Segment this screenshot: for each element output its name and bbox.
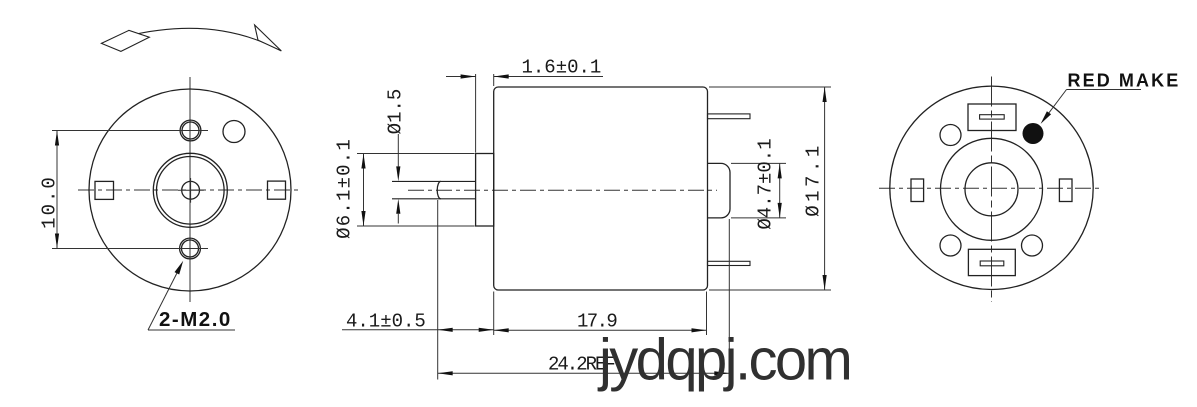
top mounting hole M2.0 [180,120,201,141]
dim 10.0 top extension line [52,130,208,132]
2-M2.0 leader arrow [148,261,183,330]
dim dia17.1 dimension line with arrows [823,87,827,290]
front shaft circle [182,181,200,199]
bushing rectangle [476,154,494,227]
bottom terminal pin [708,261,751,265]
dim 17.9 right extension line [706,292,708,336]
dim 10.0 bottom extension line [52,248,208,250]
rear bottom terminal slot [980,261,1004,266]
dim dia1.5 dimension line with arrows [396,134,400,224]
dim dia6.1 bottom extension line [357,225,475,227]
dim dia17.1 bottom extension line [709,289,831,291]
dim dia6.1 dimension line with arrows [361,154,365,227]
red mark filled dot [1023,123,1044,144]
dim 17.9 dimension line with arrows [494,328,707,332]
rear boss rounded [708,163,731,218]
shaft rounded tip [437,181,441,198]
rear bottom terminal housing [968,249,1015,275]
dim dia4.7 bottom extension line [731,217,786,219]
dim dia6.1 top extension line [357,153,475,155]
2-M2.0 leader underline [148,329,235,331]
svg-text:10.0: 10.0 [39,175,61,229]
svg-text:1.6±0.1: 1.6±0.1 [522,57,602,79]
dim 4.1 dimension line with arrows [342,328,494,332]
svg-text:2-M2.0: 2-M2.0 [159,308,232,331]
dim 1.6 right extension line [493,74,495,86]
rear vent hole bottom-right [1022,235,1043,256]
rear vent hole bottom-left [940,235,961,256]
front right flat tab square [268,181,286,199]
rear raised ring circle [941,138,1043,240]
rear top terminal housing [968,104,1016,131]
dim 4.1 body face extension line [493,292,495,336]
rear view vertical centerline [991,77,993,303]
RED MAKE leader arrow [1041,90,1067,124]
front bearing boss outer circle [153,153,227,227]
front left flat tab square [95,181,114,199]
front shaft crosshair [178,178,204,203]
shaft bottom line with extension [392,198,476,200]
dim 24.2REF right extension line [728,219,730,380]
rotation direction arc arrow [101,25,281,51]
svg-text:Ø6.1±0.1: Ø6.1±0.1 [334,138,356,239]
shaft top line with extension [392,180,476,182]
rear center bore circle [965,163,1018,216]
side view horizontal centerline [408,189,717,191]
dim dia17.1 top extension line [709,86,831,88]
svg-text:RED MAKE: RED MAKE [1068,71,1181,91]
dim 10.0 dimension line with arrows [55,131,59,249]
front pilot hole circle [223,121,245,143]
front bearing boss inner circle [157,157,225,225]
rear left flat tab [911,179,924,202]
svg-text:Ø4.7±0.1: Ø4.7±0.1 [755,138,777,229]
rear right flat tab [1059,179,1072,202]
dim 1.6 dimension line with arrows [446,74,603,78]
dim 1.6 left extension line [475,74,477,153]
rear view horizontal centerline [879,187,1103,189]
top terminal pin [708,114,751,119]
RED MAKE underline [1067,89,1142,91]
rear view motor outline circle [890,86,1093,289]
front view horizontal centerline [78,189,302,191]
svg-text:jydqpj.com: jydqpj.com [597,328,850,393]
motor body rectangle [494,87,708,290]
rear top terminal slot [980,115,1005,119]
svg-text:4.1±0.5: 4.1±0.5 [346,311,426,333]
dim 4.1 shaft tip extension line [437,200,439,380]
svg-text:Ø1.5: Ø1.5 [385,89,407,135]
front view vertical centerline [189,77,191,302]
dim dia4.7 dimension line with arrows [778,163,782,218]
bottom mounting hole M2.0 [180,238,201,259]
dim dia4.7 top extension line [731,162,786,164]
svg-text:Ø17.1: Ø17.1 [803,142,825,217]
dim 24.2REF dimension line with arrows [438,371,730,375]
front view motor outline circle [89,89,291,291]
rear vent hole top-left [940,125,961,146]
